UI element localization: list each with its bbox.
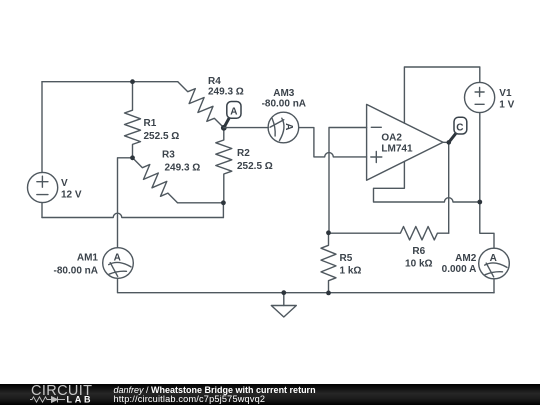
wire node A to AM3	[224, 127, 268, 129]
resistor R2	[216, 128, 232, 203]
ammeter AM1	[103, 248, 134, 279]
svg-text:R3: R3	[162, 150, 175, 161]
svg-text:C: C	[456, 122, 463, 133]
svg-text:10 kΩ: 10 kΩ	[405, 259, 432, 270]
ammeter AM3	[268, 112, 299, 143]
op-amp plus symbol	[371, 156, 382, 158]
svg-text:LAB: LAB	[67, 395, 92, 405]
wire op-amp output down to R6	[443, 142, 449, 233]
ground symbol	[271, 293, 296, 317]
junction dot R5 bottom	[326, 291, 331, 296]
wire AM2 bottom to rail	[493, 279, 495, 293]
svg-text:249.3 Ω: 249.3 Ω	[208, 87, 244, 98]
svg-text:LM741: LM741	[381, 144, 413, 155]
junction dot R1 bottom	[130, 155, 135, 160]
node C label box with pointer	[449, 117, 467, 142]
wire op-amp minus input net down to R5/R6	[329, 128, 367, 233]
svg-text:0.000 A: 0.000 A	[442, 264, 477, 275]
svg-text:-80.00 nA: -80.00 nA	[54, 266, 98, 277]
voltage source V1	[465, 82, 495, 112]
svg-text:252.5 Ω: 252.5 Ω	[237, 161, 273, 172]
logo zigzag diode	[30, 397, 65, 403]
wire bridge bottom with hop	[42, 213, 223, 217]
junction dot op-amp output	[447, 140, 452, 145]
svg-text:R1: R1	[144, 118, 157, 129]
svg-text:1 V: 1 V	[499, 100, 514, 111]
svg-text:A: A	[230, 107, 237, 118]
svg-text:12 V: 12 V	[61, 190, 82, 201]
wire R3 to R2 bottom	[178, 202, 224, 204]
svg-text:V1: V1	[499, 88, 512, 99]
svg-text:252.5 Ω: 252.5 Ω	[144, 131, 180, 142]
wire op-amp V+ pin to top rail	[404, 67, 479, 123]
svg-text:R2: R2	[237, 148, 250, 159]
wire R2 bottom stub	[222, 203, 224, 218]
resistor R5	[321, 233, 336, 294]
svg-text:R6: R6	[412, 246, 425, 257]
svg-text:A: A	[490, 253, 497, 264]
junction dot R2 bottom	[221, 200, 226, 205]
wire top rail	[42, 81, 178, 83]
wire left rail to V top	[41, 82, 43, 173]
junction dot node A	[221, 125, 227, 131]
wire V1 bottom down to AM2	[480, 113, 494, 249]
resistor R6	[329, 227, 449, 240]
wire op-amp V- pin jog to V1 bottom with hop	[374, 162, 480, 203]
op-amp U1 triangle	[367, 104, 443, 180]
svg-text:-80.00 nA: -80.00 nA	[262, 99, 306, 110]
junction dot R1 top	[130, 79, 135, 84]
wire AM3 to op-amp plus input with hop	[299, 128, 367, 157]
wire V bottom	[41, 203, 43, 218]
svg-text:249.3 Ω: 249.3 Ω	[165, 163, 201, 174]
resistor R4	[178, 82, 224, 128]
svg-text:V: V	[61, 178, 68, 189]
node A label box with pointer	[224, 102, 241, 128]
svg-text:1 kΩ: 1 kΩ	[340, 266, 362, 277]
svg-text:R5: R5	[340, 253, 353, 264]
resistor R1	[125, 82, 141, 158]
junction dot ground	[281, 290, 286, 295]
svg-text:AM3: AM3	[273, 88, 295, 99]
junction dot V1/Vminus	[477, 200, 482, 205]
svg-text:R4: R4	[208, 76, 221, 87]
svg-text:AM1: AM1	[77, 253, 99, 264]
svg-text:AM2: AM2	[455, 253, 477, 264]
op-amp minus symbol	[371, 126, 381, 128]
junction dot R5 top	[326, 230, 331, 235]
svg-text:CIRCUIT: CIRCUIT	[31, 383, 92, 399]
svg-text:A: A	[283, 123, 294, 130]
resistor R3	[133, 158, 178, 203]
wire jog R1/R3 junction to AM1 with hop crossing	[118, 158, 133, 248]
svg-text:http://circuitlab.com/c7p5j575: http://circuitlab.com/c7p5j575wqvq2	[114, 394, 266, 404]
ammeter AM2	[479, 248, 510, 279]
svg-text:A: A	[114, 252, 121, 263]
voltage source V	[27, 172, 57, 202]
svg-text:OA2: OA2	[381, 133, 402, 144]
wire AM1 bottom to ground rail	[118, 278, 495, 292]
